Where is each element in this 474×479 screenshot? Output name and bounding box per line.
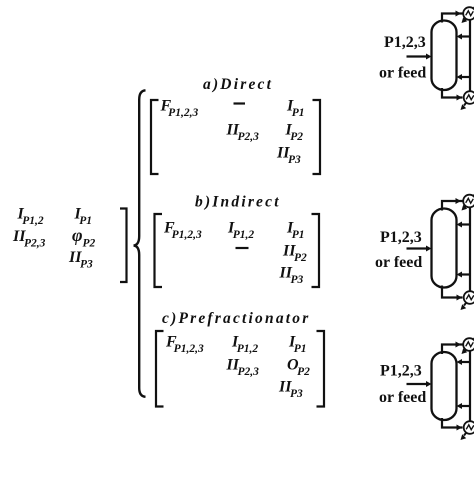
- svg-text:b)Indirect: b)Indirect: [195, 194, 281, 211]
- pipe: reflux return line unit 2: [461, 223, 472, 225]
- svg-text:P1,2,3: P1,2,3: [380, 363, 422, 380]
- column C1 vessel: [432, 21, 457, 91]
- matrix-a right bracket: [313, 100, 321, 174]
- pipe: column C2 bottoms line to reboiler: [442, 286, 463, 298]
- matrix-b left bracket: [155, 214, 163, 287]
- pipe: column C1 bottoms line to reboiler: [442, 88, 463, 98]
- feed arrow unit 1: [407, 55, 427, 57]
- pipe: right vertical line unit 1: [469, 18, 471, 94]
- big curly brace: [134, 90, 146, 397]
- distillate product arrow unit 1: [462, 6, 474, 24]
- condenser unit 1: [463, 7, 474, 20]
- condenser unit 3: [463, 338, 474, 351]
- column C2 vessel: [432, 209, 457, 288]
- matrix-b right bracket: [312, 214, 320, 287]
- matrix-a minus sign: [234, 102, 246, 104]
- left-matrix right bracket: [120, 209, 127, 283]
- pipe: reflux return line unit 1: [461, 35, 472, 37]
- pipe: reboiler vapour return line unit 2: [461, 273, 472, 275]
- pipe: column C3 bottoms line to reboiler: [442, 418, 463, 428]
- reboiler unit 2: [464, 291, 474, 304]
- bottoms product arrow unit 2: [461, 290, 474, 311]
- condenser unit 2: [463, 195, 474, 208]
- svg-text:or feed: or feed: [379, 65, 426, 82]
- column C3 vessel: [432, 352, 457, 420]
- bottoms product arrow unit 1: [461, 90, 474, 111]
- pipe: column C2 top vapor line to condenser: [442, 201, 463, 211]
- pipe: reboiler vapour return line unit 1: [461, 76, 472, 78]
- svg-text:or feed: or feed: [379, 389, 426, 406]
- reboiler unit 1: [464, 91, 474, 104]
- distillate product arrow unit 2: [462, 193, 474, 211]
- feed arrow unit 2: [407, 247, 427, 249]
- svg-text:c)Prefractionator: c)Prefractionator: [162, 310, 310, 327]
- bottoms product arrow unit 3: [461, 420, 474, 441]
- matrix-c right bracket: [317, 331, 325, 407]
- pipe: column C1 top vapor line to condenser: [442, 14, 463, 23]
- distillate product arrow unit 3: [462, 337, 474, 355]
- svg-text:or feed: or feed: [375, 254, 422, 271]
- pipe: right vertical line unit 3: [469, 349, 471, 424]
- svg-text:P1,2,3: P1,2,3: [380, 229, 422, 246]
- matrix-b minus sign: [236, 247, 249, 249]
- svg-text:a)Direct: a)Direct: [203, 76, 273, 93]
- svg-text:P1,2,3: P1,2,3: [384, 34, 426, 51]
- pipe: right vertical line unit 2: [469, 205, 471, 294]
- reboiler unit 3: [464, 421, 474, 434]
- matrix-c left bracket: [156, 331, 164, 407]
- pipe: reflux return line unit 3: [461, 361, 472, 363]
- pipe: column C3 top vapor line to condenser: [442, 345, 463, 355]
- pipe: reboiler vapour return line unit 3: [461, 405, 472, 407]
- matrix-a left bracket: [151, 100, 159, 174]
- feed arrow unit 3: [407, 383, 427, 385]
